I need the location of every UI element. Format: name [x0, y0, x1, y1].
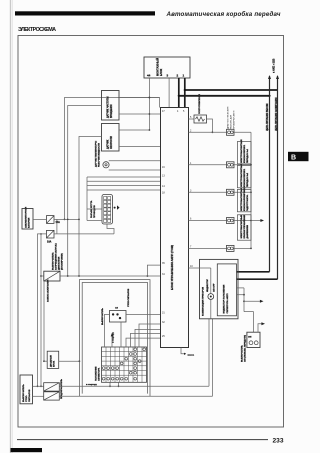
instrument cluster outer box	[200, 259, 239, 318]
svg-text:5: 5	[190, 116, 192, 119]
svg-text:ИНДИКАТОР: ИНДИКАТОР	[206, 279, 209, 292]
svg-text:ON: ON	[248, 337, 252, 339]
wire sensor upper	[109, 160, 161, 162]
bottom box wires	[33, 386, 44, 396]
svg-text:к стартеру: к стартеру	[113, 331, 115, 343]
svg-text:РАЗЪЕМ ДЛЯ: РАЗЪЕМ ДЛЯ	[230, 114, 233, 129]
ignition switch symbol	[44, 271, 60, 302]
diode module wires	[44, 360, 80, 362]
junction pin44 on node bus	[149, 97, 151, 99]
parallel wires to TCM left pins	[87, 177, 161, 190]
solenoid wire 4	[189, 245, 252, 251]
svg-text:18: 18	[162, 192, 165, 195]
svg-text:ДАТЧИК ТЕМПЕРАТУРЫ: ДАТЧИК ТЕМПЕРАТУРЫ	[95, 141, 98, 167]
svg-text:СЕЛЕКТОРА АКПП: СЕЛЕКТОРА АКПП	[226, 293, 229, 313]
solenoid wire 2	[189, 189, 252, 195]
section tab B (right edge)	[288, 152, 309, 162]
battery feed line right A (to +12V)	[237, 75, 272, 272]
svg-text:ЭЛЕКТРОМАГНИТНЫЙ: ЭЛЕКТРОМАГНИТНЫЙ	[240, 214, 243, 238]
solenoid wire 1	[189, 162, 252, 168]
O/D switch arrow wire	[258, 322, 265, 332]
lamp vertical wire	[210, 268, 212, 319]
switch feed stub	[41, 275, 44, 277]
svg-text:ЭЛЕКТРОМАГНИТНЫЙ: ЭЛЕКТРОМАГНИТНЫЙ	[240, 163, 243, 187]
svg-text:БЛОК: БЛОК	[54, 360, 56, 367]
svg-text:ВРАЩЕНИЯ: ВРАЩЕНИЯ	[110, 104, 113, 118]
lamp feed wire from TCM	[189, 267, 211, 269]
svg-text:6: 6	[190, 218, 192, 221]
svg-text:СИГНАЛОВ: СИГНАЛОВ	[28, 389, 31, 402]
svg-text:2: 2	[177, 74, 179, 78]
svg-text:ВЫКЛЮЧАТЕЛЬ: ВЫКЛЮЧАТЕЛЬ	[22, 384, 25, 402]
stop lamp switch box	[101, 288, 130, 325]
svg-text:ЗАПРЕЩЕНИЯ ЗАПУСКА: ЗАПРЕЩЕНИЯ ЗАПУСКА	[55, 243, 58, 270]
wire box2 right upper	[119, 129, 150, 131]
svg-text:ИНДИКАТОР ПОЛОЖЕНИЯ: ИНДИКАТОР ПОЛОЖЕНИЯ	[223, 284, 226, 313]
wire from block pin 44	[148, 78, 150, 130]
wire box2 right lower	[119, 146, 161, 148]
svg-text:5: 5	[183, 110, 185, 113]
svg-text:КЛАПАН ПЕРЕКЛ.: КЛАПАН ПЕРЕКЛ.	[243, 168, 246, 187]
svg-text:к стартеру: к стартеру	[86, 384, 98, 386]
svg-text:ВЫКЛЮЧАТЕЛЬ: ВЫКЛЮЧАТЕЛЬ	[52, 252, 55, 270]
wire fuse F2 feed left	[38, 234, 47, 386]
svg-text:БАТАРЕЯ: БАТАРЕЯ	[27, 217, 30, 228]
svg-text:КОМБИНАЦИЯ ПРИБОРОВ: КОМБИНАЦИЯ ПРИБОРОВ	[202, 286, 205, 316]
svg-text:КЛАПАН УПРАВЛЕНИЯ: КЛАПАН УПРАВЛЕНИЯ	[243, 214, 246, 238]
svg-text:(БЛОКИРОВКИ): (БЛОКИРОВКИ)	[62, 253, 64, 270]
svg-text:ВЫКЛЮЧАТЕЛЬ: ВЫКЛЮЧАТЕЛЬ	[241, 345, 244, 362]
diagram outer frame	[18, 36, 284, 428]
svg-text:47: 47	[162, 110, 165, 113]
battery box	[22, 207, 33, 229]
svg-text:15A: 15A	[56, 221, 61, 224]
relay R1	[44, 383, 60, 391]
svg-text:ЭЛЕКТРОМАГНИТНЫЙ: ЭЛЕКТРОМАГНИТНЫЙ	[240, 139, 243, 163]
wire box1 right upper	[119, 97, 160, 99]
vehicle speed sensor box 2	[102, 124, 120, 152]
thick supply wire vertical 2	[184, 78, 186, 108]
svg-text:2: 2	[190, 129, 192, 132]
svg-text:16: 16	[162, 166, 165, 169]
svg-text:ВЫКЛЮЧАТЕЛЬ: ВЫКЛЮЧАТЕЛЬ	[101, 308, 104, 325]
thick supply wire vertical 1	[178, 78, 180, 108]
svg-text:ДАТЧИК: ДАТЧИК	[107, 139, 110, 149]
svg-text:к АКБ +12В: к АКБ +12В	[272, 59, 276, 73]
svg-text:ДАВЛЕНИЕМ: ДАВЛЕНИЕМ	[246, 225, 249, 239]
page scan left edge	[11, 0, 13, 453]
connector arrow mark	[114, 205, 120, 209]
solenoid label box 1	[237, 139, 251, 164]
inhibitor switch assembly outer box	[79, 280, 150, 397]
oil temperature sensor	[95, 141, 110, 168]
illumination arrow wire	[244, 300, 264, 303]
cluster ground verticals	[209, 319, 213, 397]
svg-text:13: 13	[162, 175, 165, 178]
fuse F1	[47, 216, 61, 224]
battery feed line right B (to +12V)	[237, 75, 280, 279]
wire box2 left	[79, 137, 102, 277]
svg-text:ЭЛЕКТРОМАГНИТНЫЙ: ЭЛЕКТРОМАГНИТНЫЙ	[240, 187, 243, 211]
ladder bottom wire to fuse feed	[107, 224, 114, 234]
svg-text:ЦЕПЬ ПИТАНИЯ ЗАЖИГАНИЯ: ЦЕПЬ ПИТАНИЯ ЗАЖИГАНИЯ	[275, 97, 278, 131]
wire box1 left	[68, 106, 102, 277]
svg-text:10A: 10A	[47, 241, 52, 244]
wire from block pin 3 to TCM	[168, 78, 170, 108]
speed sensor box 1	[102, 91, 120, 121]
ground wire lower (relay R2 to cluster)	[59, 395, 212, 397]
fuse/relay block box (top)	[144, 57, 190, 78]
svg-text:233: 233	[273, 438, 284, 445]
diode module box	[47, 351, 59, 368]
svg-text:масса: масса	[188, 354, 195, 356]
svg-text:РАБОЧЕЙ ЖИДКОСТИ: РАБОЧЕЙ ЖИДКОСТИ	[98, 143, 101, 167]
svg-text:БЛОК УПРАВЛЕНИЯ АКПП (ТСМ): БЛОК УПРАВЛЕНИЯ АКПП (ТСМ)	[170, 245, 174, 290]
svg-text:35: 35	[162, 262, 165, 265]
solenoid wire 3	[189, 218, 252, 224]
inhibitor switch assembly inner box	[82, 283, 147, 394]
starter feed arrow above grid	[111, 331, 115, 347]
ground wire upper (relay R1 to cluster)	[59, 385, 209, 387]
svg-text:ПЕРЕДАЧ №2: ПЕРЕДАЧ №2	[246, 172, 249, 187]
diagnostic wire to bus	[234, 131, 251, 133]
svg-text:СОПРОТИВЛЕНИЕ: СОПРОТИВЛЕНИЕ	[199, 93, 201, 114]
dropping resistor	[194, 93, 207, 123]
svg-text:ГИДРОТРАНСФ.: ГИДРОТРАНСФ.	[246, 194, 249, 211]
inhibitor switch label	[52, 243, 64, 270]
svg-text:СТОП-: СТОП-	[26, 395, 28, 402]
grid feed wires from TCM	[126, 324, 161, 347]
thick supply wire horizontal lower	[178, 95, 271, 97]
svg-text:3: 3	[167, 74, 169, 78]
selector indicator inner box	[217, 264, 236, 316]
stop lamp feed box (bottom left)	[20, 375, 33, 404]
wire fuse F1 output	[54, 219, 80, 221]
fuse F2	[47, 230, 55, 243]
svg-text:ДВИГАТЕЛЯ: ДВИГАТЕЛЯ	[58, 256, 61, 270]
ground arrow on wire 3	[251, 219, 264, 222]
svg-text:34: 34	[162, 273, 165, 276]
svg-text:ПРОВОДОВ: ПРОВОДОВ	[94, 205, 96, 218]
branch riser to TCM pin 35	[147, 265, 160, 276]
svg-text:1: 1	[190, 162, 192, 165]
svg-text:3: 3	[190, 189, 192, 192]
TCM pin labels	[162, 110, 193, 338]
footer black bar bottom-left	[11, 448, 43, 452]
relay R2	[44, 379, 63, 401]
resistor wires	[189, 119, 214, 133]
wire fuse F2 output right	[54, 233, 114, 235]
svg-text:В: В	[291, 155, 296, 162]
svg-text:СТОП-СИГНАЛОВ: СТОП-СИГНАЛОВ	[127, 288, 130, 307]
thick supply wire horizontal upper	[184, 89, 278, 91]
svg-text:СКОРОСТИ: СКОРОСТИ	[111, 136, 113, 149]
selector position contact grid	[96, 347, 147, 382]
diagnostic label	[227, 106, 236, 129]
O/D switch box	[241, 332, 260, 362]
svg-text:O/D (ПОВЫШ. ПЕРЕДАЧИ): O/D (ПОВЫШ. ПЕРЕДАЧИ)	[244, 335, 247, 362]
diagnostic wire	[189, 131, 227, 133]
solenoid label box 4	[237, 214, 251, 240]
svg-text:25: 25	[162, 335, 165, 338]
svg-text:ПОЛОЖЕНИЕ: ПОЛОЖЕНИЕ	[96, 366, 98, 381]
wire sensor lower	[109, 169, 161, 171]
O/D OFF indicator lamp	[206, 279, 216, 300]
solenoid label box 2	[237, 163, 251, 188]
svg-text:14: 14	[162, 185, 165, 188]
svg-text:1: 1	[183, 74, 185, 78]
inner box right-side wires	[237, 288, 245, 312]
svg-text:10: 10	[190, 265, 193, 268]
header black bar	[15, 11, 155, 15]
svg-text:32: 32	[162, 321, 165, 324]
grid output drops	[86, 382, 119, 387]
TCM control unit box	[161, 108, 189, 348]
TCM ground stub	[181, 348, 195, 357]
svg-text:7: 7	[190, 245, 192, 248]
svg-text:КЛАПАН БЛОКИРОВКИ: КЛАПАН БЛОКИРОВКИ	[243, 187, 246, 211]
svg-text:СЗ: СЗ	[115, 308, 119, 310]
svg-text:31: 31	[162, 311, 165, 314]
ladder loop wires	[87, 177, 102, 221]
svg-text:АККУМУЛЯТОРНАЯ: АККУМУЛЯТОРНАЯ	[24, 207, 27, 228]
svg-text:44: 44	[147, 74, 151, 78]
wire battery to fuse F1	[33, 218, 47, 220]
switch output wire to TCM	[60, 275, 161, 277]
svg-text:ДИАГНОСТИЧЕСКИЙ: ДИАГНОСТИЧЕСКИЙ	[227, 106, 230, 129]
svg-text:O/D OFF: O/D OFF	[214, 283, 216, 292]
svg-text:ПЕРЕДАЧ №1: ПЕРЕДАЧ №1	[246, 148, 249, 163]
svg-text:СЕЛЕКТОРА: СЕЛЕКТОРА	[98, 367, 101, 381]
harness connector ladder	[90, 195, 113, 225]
stop switch wires	[105, 314, 161, 347]
svg-text:ДИОДНЫЙ: ДИОДНЫЙ	[50, 355, 53, 367]
svg-text:4: 4	[177, 110, 179, 113]
svg-text:ПРОВЕРКИ АКПП: ПРОВЕРКИ АКПП	[233, 110, 236, 129]
switch lower vertical	[43, 281, 45, 362]
vertical feed wire x=41	[37, 233, 42, 387]
svg-text:ЦЕПЬ ПИТАНИЯ ВЕСОМ: ЦЕПЬ ПИТАНИЯ ВЕСОМ	[266, 103, 269, 131]
svg-text:ЗАМОК ЗАЖИГАНИЯ: ЗАМОК ЗАЖИГАНИЯ	[47, 279, 50, 302]
wire node bus y=97.5	[64, 97, 160, 221]
svg-text:ЭЛЕКТРОСХЕМА: ЭЛЕКТРОСХЕМА	[18, 27, 56, 33]
diagnostic connector	[227, 129, 235, 135]
svg-text:ДАТЧИК ЧАСТОТЫ: ДАТЧИК ЧАСТОТЫ	[107, 96, 110, 118]
vertical link between fuse outputs	[56, 219, 58, 234]
svg-text:БЛОК: БЛОК	[159, 68, 163, 76]
svg-text:Автоматическая коробка передач: Автоматическая коробка передач	[166, 11, 281, 18]
svg-text:КЛАПАН ПЕРЕКЛ.: КЛАПАН ПЕРЕКЛ.	[243, 144, 246, 163]
solenoid label box 3	[237, 187, 251, 212]
wire down to O/D switch	[244, 312, 253, 333]
footer rule	[17, 439, 268, 441]
wire box1 right lower	[119, 113, 161, 115]
solenoid bus vertical	[250, 132, 252, 248]
